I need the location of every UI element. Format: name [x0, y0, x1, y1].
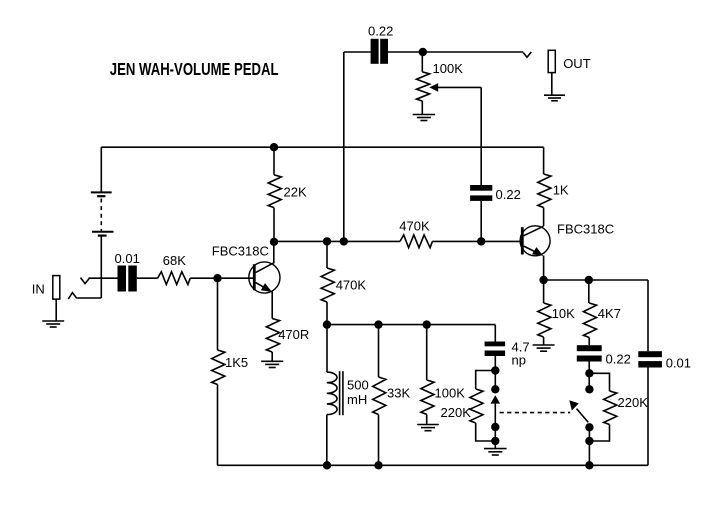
label R3 22K: [284, 184, 307, 199]
node VR2 wiper junction: [491, 385, 499, 393]
svg-text:FBC318C: FBC318C: [212, 243, 269, 258]
wire VR2 wiper to ground: [494, 404, 496, 449]
battery B1 dashed link: [100, 199, 102, 232]
node VR2 lower junction: [491, 423, 499, 431]
node 0.22 branch junction: [340, 237, 348, 245]
wire R4 to ground: [271, 352, 273, 361]
wire IN jack ground stem: [55, 299, 57, 321]
node VR3 upper junction: [585, 385, 593, 393]
label C1 0.01: [115, 251, 140, 266]
wire middle row: [327, 324, 495, 326]
wire VR2 top bracket: [476, 371, 496, 390]
inductor L1 core bars: [340, 371, 343, 415]
wire 0.22 cap right lead: [388, 51, 423, 53]
jack J2 OUT: [548, 50, 555, 72]
label R7 33K: [387, 385, 410, 400]
wiper lead VR3: [577, 409, 589, 423]
capacitor C5 4.7np: [485, 342, 506, 357]
label OUT: [563, 56, 591, 71]
battery B1 cell 1: [91, 192, 112, 196]
wire Q1 collector row: [274, 240, 400, 242]
node middle row left junction: [323, 320, 331, 328]
wire R5 to Q2 base: [432, 240, 521, 242]
label R11 4K7: [598, 306, 621, 321]
wire right rail: [647, 280, 649, 351]
wire middle row to R7: [378, 325, 380, 377]
wire VR1 wiper to C4: [438, 87, 481, 185]
ground IN jack: [42, 321, 64, 327]
capacitor C6 0.22: [577, 345, 602, 361]
resistor R7 33K: [373, 377, 386, 415]
resistor R4 470R: [266, 319, 279, 353]
transistor Q1 base bar: [253, 264, 256, 290]
ground VR1 100K pot: [413, 115, 436, 121]
wiper arrow VR3: [569, 400, 579, 410]
potentiometer VR1 100K: [417, 72, 430, 101]
wire C1 to R1: [137, 277, 158, 279]
svg-text:22K: 22K: [284, 184, 307, 199]
transistor Q1 emitter arrow: [261, 283, 272, 292]
label R4 470R: [278, 327, 309, 342]
svg-text:470K: 470K: [399, 219, 430, 234]
wire middle row to C5: [494, 325, 496, 342]
label Q2 FBC318C: [557, 222, 614, 237]
svg-text:0.01: 0.01: [666, 355, 691, 370]
wire 0.22 branch vertical: [343, 52, 345, 241]
title text: [110, 59, 279, 79]
label C5 4.7: [512, 340, 530, 355]
wire Q2 emitter to node: [543, 256, 545, 281]
transistor Q1 circle: [249, 262, 280, 293]
node VR2 top junction: [491, 366, 499, 374]
node supply rail / 22K junction: [270, 143, 278, 151]
ground R8 100K: [417, 425, 439, 431]
resistor R9 1K: [538, 174, 551, 208]
resistor R3 22K: [268, 175, 281, 208]
node C4 bottom junction: [477, 237, 485, 245]
svg-text:10K: 10K: [552, 306, 575, 321]
wire R1 to Q1 base: [190, 277, 253, 279]
node VR3 bottom junction: [585, 437, 593, 445]
label IN: [32, 281, 45, 296]
battery B1 cell 2: [92, 232, 114, 236]
wire R7 to bottom rail: [378, 415, 380, 466]
potentiometer VR2 220K: [470, 389, 483, 423]
node VR3 bottom rail junction: [585, 461, 593, 469]
wire node to R11: [588, 280, 590, 303]
potentiometer VR3 220K: [604, 391, 617, 425]
svg-text:220K: 220K: [618, 395, 649, 410]
svg-text:1K: 1K: [553, 182, 569, 197]
node VR3 lower junction: [585, 423, 593, 431]
wire jack tip to C1: [89, 277, 118, 279]
wire 0.22 cap left lead: [344, 51, 371, 53]
node 33K top junction: [374, 320, 382, 328]
label C2 0.22: [368, 24, 393, 39]
node VR3 top junction: [585, 369, 593, 377]
wire pot top lead: [421, 52, 423, 72]
label C7 0.01: [666, 355, 691, 370]
wire C5 to VR2 top node: [494, 356, 496, 389]
wire node to R6: [326, 241, 328, 268]
resistor R11 4K7: [583, 303, 596, 338]
label R2 1K5: [225, 355, 248, 370]
svg-text:0.22: 0.22: [496, 187, 521, 202]
svg-text:OUT: OUT: [563, 56, 591, 71]
svg-text:0.22: 0.22: [368, 24, 393, 39]
node top cap / 100K pot junction: [419, 48, 427, 56]
label VR3 220K: [618, 395, 649, 410]
svg-text:33K: 33K: [387, 385, 410, 400]
resistor R8 100K: [421, 380, 434, 414]
wire C6 to VR3 top node: [588, 362, 590, 390]
wire battery bottom stem: [100, 236, 102, 298]
node Q1 base junction: [213, 274, 221, 282]
wire R11 to C6: [588, 338, 590, 346]
wire R8 to ground: [426, 414, 428, 424]
wire top supply rail: [101, 146, 543, 148]
ground R4 470R: [261, 361, 283, 367]
wire bottom rail: [218, 464, 649, 466]
node Q1 collector junction: [270, 238, 278, 246]
wire jack ring to battery: [79, 297, 101, 299]
wire battery top stem: [100, 147, 102, 192]
wire emitter node to R10: [543, 280, 545, 303]
node R7 bottom rail junction: [374, 461, 382, 469]
label C6 0.22: [606, 351, 631, 366]
wire R3 to Q1 collector node: [273, 208, 275, 242]
resistor R10 10K: [538, 303, 551, 337]
wire R6 to middle row: [326, 302, 328, 372]
node 4K7 top junction: [585, 276, 593, 284]
wire C7 to bottom rail: [647, 368, 649, 466]
wire OUT jack ground stem: [551, 73, 553, 96]
jack J1 IN: [53, 276, 60, 300]
resistor R2 1K5: [212, 350, 225, 385]
wire emitter row: [544, 279, 648, 281]
resistor R6 470K (bias): [321, 268, 334, 302]
label R1 68K: [163, 253, 186, 268]
svg-text:np: np: [512, 353, 526, 368]
wire C4 to base row: [480, 201, 482, 242]
capacitor C2 0.22 (top): [371, 39, 388, 64]
node VR2 bottom junction: [491, 437, 499, 445]
label R5 470K: [399, 219, 430, 234]
node 100K top junction: [423, 320, 431, 328]
ground VR2 220K pot: [484, 449, 507, 455]
label VR2 220K: [441, 405, 472, 420]
svg-text:0.22: 0.22: [606, 351, 631, 366]
wire VR3 to bottom rail: [588, 427, 590, 465]
label R6 470K: [336, 278, 367, 293]
wire to OUT jack: [423, 51, 524, 53]
svg-text:100K: 100K: [433, 61, 464, 76]
inductor L1 500mH coil: [327, 372, 337, 415]
wiper arrow VR2 (up): [491, 395, 501, 403]
wire base node to R2: [217, 278, 219, 350]
label VR1 100K: [433, 61, 464, 76]
transistor Q2 emitter arrow: [532, 247, 543, 256]
label R9 1K: [553, 182, 569, 197]
wire middle row to R8: [426, 325, 428, 380]
jack tip contact tick (IN): [81, 278, 90, 284]
label C4 0.22: [496, 187, 521, 202]
capacitor C7 0.01 (right): [638, 351, 662, 367]
label C5 np: [512, 353, 526, 368]
transistor Q2 base bar: [521, 227, 524, 254]
svg-text:470R: 470R: [278, 327, 309, 342]
svg-text:0.01: 0.01: [115, 251, 140, 266]
wire VR3 top bracket: [589, 373, 609, 391]
wire VR3 bottom bracket: [589, 425, 609, 442]
wire R2 to ground rail: [217, 385, 219, 466]
label L1 mH: [347, 392, 367, 407]
capacitor C1 0.01 (input): [118, 266, 137, 292]
label R10 10K: [552, 306, 575, 321]
jack tip contact tick (OUT): [523, 52, 531, 57]
svg-text:68K: 68K: [163, 253, 186, 268]
svg-text:IN: IN: [32, 281, 45, 296]
svg-text:1K5: 1K5: [225, 355, 248, 370]
jack ring contact tick (IN): [68, 293, 79, 299]
label R8 100K: [435, 385, 466, 400]
transistor Q2 emitter lead: [524, 246, 536, 252]
wire VR2 bottom bracket: [476, 423, 496, 441]
transistor Q1 emitter lead: [256, 282, 265, 287]
svg-text:470K: 470K: [336, 278, 367, 293]
svg-text:220K: 220K: [441, 405, 472, 420]
dashed mechanical link: [500, 412, 571, 414]
transistor Q2 collector lead: [524, 226, 544, 236]
svg-text:500: 500: [347, 378, 369, 393]
resistor R5 470K (coupling): [400, 235, 432, 248]
node 470K-2 top junction: [323, 237, 331, 245]
wire rail to R3: [273, 147, 275, 175]
wiper arrow VR1: [429, 83, 438, 92]
ground OUT jack: [544, 95, 565, 101]
label Q1 FBC318C: [212, 243, 269, 258]
svg-text:mH: mH: [347, 392, 367, 407]
ground R10 10K: [533, 345, 555, 351]
capacitor C4 0.22 (feedback): [470, 185, 492, 201]
wire R10 to ground: [543, 337, 545, 345]
svg-text:100K: 100K: [435, 385, 466, 400]
svg-text:4K7: 4K7: [598, 306, 621, 321]
wire L1 to bottom rail: [326, 415, 328, 466]
svg-text:JEN WAH-VOLUME PEDAL: JEN WAH-VOLUME PEDAL: [110, 59, 279, 79]
wire R9 to Q2 collector: [543, 208, 545, 227]
wire pot bottom lead: [421, 101, 423, 115]
resistor R1 68K: [158, 272, 191, 285]
transistor Q2 circle: [520, 226, 550, 256]
wire rail corner to R9: [543, 147, 545, 174]
svg-text:FBC318C: FBC318C: [557, 222, 614, 237]
node L1 bottom rail junction: [323, 461, 331, 469]
label L1 500: [347, 378, 369, 393]
transistor Q1 collector lead: [256, 242, 274, 273]
node Q2 emitter junction: [539, 276, 547, 284]
wire Q1 emitter to R4: [271, 292, 273, 319]
